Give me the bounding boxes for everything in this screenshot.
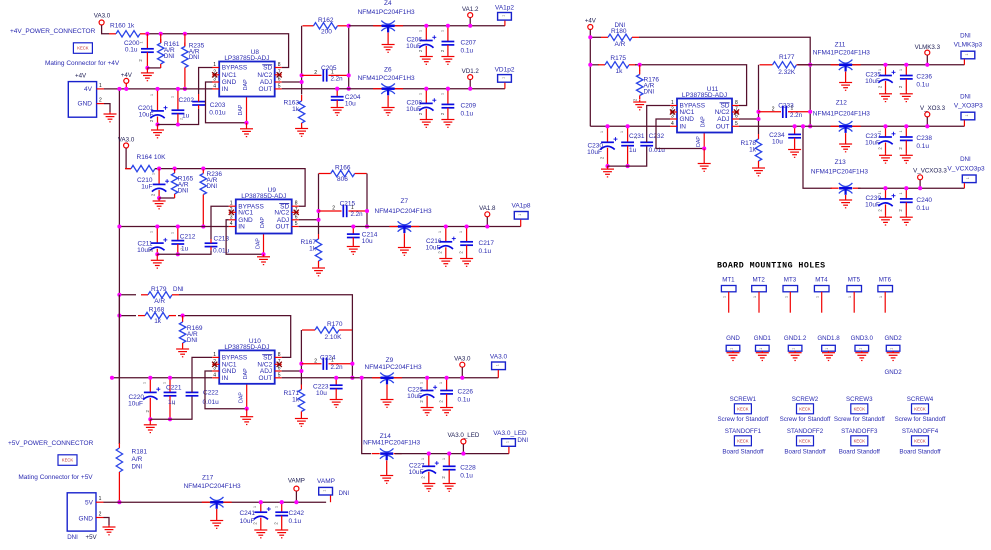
svg-text:+4V_POWER_CONNECTOR: +4V_POWER_CONNECTOR [10,28,96,35]
ground Z17 [210,519,223,528]
svg-text:OUT: OUT [258,86,272,93]
mounting hole MT1 [721,277,736,313]
ground C214 [347,245,360,254]
wire V_VCXO3.3 rail [858,187,964,189]
svg-text:VA3.0: VA3.0 [454,356,471,363]
ground Z7 [398,246,411,255]
svg-text:VA1.2: VA1.2 [462,6,479,13]
svg-text:2.10K: 2.10K [325,334,343,341]
svg-text:2: 2 [99,512,102,518]
wire cap common bus U11 [608,146,647,166]
svg-text:Screw for Standoff: Screw for Standoff [895,416,946,423]
svg-text:NFM41PC204F1H3: NFM41PC204F1H3 [358,9,415,16]
svg-text:1: 1 [791,106,794,112]
svg-text:2.2n: 2.2n [790,112,803,119]
capacitor C220 10uF [143,378,160,420]
ground C230 [601,166,614,177]
svg-text:MT2: MT2 [753,277,766,284]
svg-text:V_XO3P3: V_XO3P3 [954,103,983,110]
svg-text:DAP: DAP [239,392,245,403]
svg-text:SCREW4: SCREW4 [907,396,934,403]
svg-text:Z9: Z9 [386,357,394,364]
ground DAP U10 [240,409,253,425]
KECK footprint box 5V [58,455,77,466]
resistor R162 200 [303,23,349,29]
svg-text:5: 5 [278,83,281,89]
svg-text:5: 5 [735,121,738,127]
svg-text:1u: 1u [629,147,637,154]
wire VA3.0_LED rail [395,453,509,455]
capacitor C204 10u [331,89,344,106]
DAP pad U10 [246,384,248,409]
ground C228 [443,482,456,492]
svg-text:5: 5 [295,221,298,227]
svg-text:VAMP: VAMP [317,478,335,485]
capacitor C202 1u [172,89,185,125]
standoff STANDOFF1 [725,428,762,435]
ground C238 [900,153,913,163]
resistor R180 A/R DNI [590,36,601,38]
wire ADJ node vertical x318.5 [299,219,319,221]
svg-text:0.1u: 0.1u [479,248,492,255]
svg-text:1: 1 [858,348,862,350]
svg-text:2: 2 [180,118,184,120]
svg-text:10uF: 10uF [407,393,422,400]
standoff STANDOFF3 [841,428,878,435]
svg-text:IN: IN [680,124,687,131]
svg-text:0.1u: 0.1u [460,472,473,479]
ground C204 [331,106,344,115]
svg-text:6: 6 [295,214,298,220]
svg-text:R177: R177 [779,54,795,61]
svg-text:10uF: 10uF [139,112,154,119]
svg-text:KECK: KECK [854,438,866,443]
wire R180 to OUT vertical [639,37,810,65]
wire ADJ node vertical x301.4 [282,370,302,372]
svg-text:1: 1 [518,214,522,216]
capacitor C200 0.1u [141,34,154,68]
svg-text:DNI: DNI [207,183,218,190]
ground Z9 [381,398,394,407]
svg-text:MT1: MT1 [722,277,735,284]
mounting hole MT3 [783,277,798,313]
wire SD rail U11 [635,65,747,106]
svg-text:GND3.0: GND3.0 [851,335,874,342]
ground C226 [440,406,453,416]
svg-text:1: 1 [816,296,820,298]
svg-text:Screw for Standoff: Screw for Standoff [780,416,831,423]
svg-text:6: 6 [278,366,281,372]
svg-text:VA3.0: VA3.0 [94,13,111,20]
ground DAP U11 [698,149,711,172]
svg-text:8: 8 [735,100,738,106]
svg-text:DNI: DNI [960,93,971,100]
connector J +5V [67,493,96,531]
wire VA3.0 rail (OUT) [282,377,499,379]
mounting hole MT5 [847,277,862,313]
svg-text:KECK: KECK [914,438,926,443]
svg-text:Screw for Standoff: Screw for Standoff [718,416,769,423]
svg-text:C217: C217 [479,240,495,247]
svg-text:10uF: 10uF [865,78,880,85]
ground C242 [275,528,288,538]
svg-text:1: 1 [150,94,154,96]
wire VD1.2 rail (OUT) [282,88,505,90]
svg-text:10uF: 10uF [865,140,880,147]
svg-text:KECK: KECK [799,438,811,443]
svg-text:GND1.2: GND1.2 [784,335,807,342]
svg-text:2.2n: 2.2n [331,364,344,371]
ground symbol GND2 [887,351,900,360]
svg-text:A/R: A/R [154,298,165,305]
standoff STANDOFF2 [787,428,824,435]
svg-text:2: 2 [99,98,102,104]
ferrite bead Z4 NFM41PC204F1H3 [373,21,403,43]
svg-text:3: 3 [230,214,233,220]
ground Z6 [382,106,395,115]
ground C241 [254,528,267,538]
svg-text:VLMK3p3: VLMK3p3 [954,42,983,49]
svg-text:C205: C205 [321,65,337,72]
capacitor C223 10u [330,378,343,398]
svg-text:KECK: KECK [799,406,811,411]
ground DAP U9 [257,254,270,264]
svg-text:GND1: GND1 [754,335,772,342]
wire VA1.8 rail (OUT) [299,226,521,228]
svg-text:1: 1 [351,205,354,211]
junction dots SD rail [145,32,149,36]
svg-text:1: 1 [671,100,674,106]
svg-text:MT6: MT6 [879,277,892,284]
svg-text:BYPASS: BYPASS [222,65,248,72]
svg-text:2.2n: 2.2n [331,76,344,83]
svg-text:1: 1 [966,177,970,179]
svg-text:NFM41PC204F1H3: NFM41PC204F1H3 [358,75,415,82]
svg-text:Board Standoff: Board Standoff [899,449,940,456]
svg-text:IN: IN [222,375,229,382]
screw SCREW1 [730,396,757,403]
ground C207 [441,55,454,65]
svg-text:Z6: Z6 [384,67,392,74]
ground DAP U8 [240,123,253,137]
svg-text:DNI: DNI [960,156,971,163]
ground C210 [153,198,166,209]
svg-text:R160 1k: R160 1k [110,23,135,30]
svg-text:10uF: 10uF [426,244,441,251]
ferrite bead Z7 NFM41PC204F1H3 [389,221,419,246]
KECK box SCREW1 [734,404,751,414]
ferrite bead Z11 NFM41PC204F1H3 [831,60,861,81]
svg-text:VD1.2: VD1.2 [462,68,480,75]
svg-text:ADJ: ADJ [717,116,729,123]
svg-text:GND: GND [680,116,695,123]
svg-text:+5V: +5V [86,534,98,541]
svg-text:1: 1 [759,348,763,350]
ground C201 [151,125,164,138]
svg-text:VA1p2: VA1p2 [495,5,514,12]
ground symbol GND3.0 [855,351,868,360]
wire SD rail U9 [155,169,305,207]
svg-text:1uF: 1uF [141,184,152,191]
svg-text:V_VCXO3.3: V_VCXO3.3 [913,168,947,175]
capacitor C228 0.1u [443,454,456,482]
svg-text:1: 1 [753,296,757,298]
svg-text:NFM41PC204F1H3: NFM41PC204F1H3 [811,169,868,176]
svg-text:4: 4 [213,372,216,378]
svg-text:DNI: DNI [517,437,528,444]
svg-text:A/R: A/R [615,41,626,48]
svg-text:SCREW1: SCREW1 [730,396,757,403]
svg-text:0.1u: 0.1u [461,110,474,117]
capacitor C207 0.1u [442,26,455,55]
wire GND pin3 to DAP [226,220,263,255]
ground R163 [295,127,308,137]
capacitor C233 2.2n [759,106,811,118]
svg-text:R181: R181 [132,449,148,456]
KECK box STANDOFF3 [851,436,868,446]
ground symbol GND1 [756,351,769,360]
svg-text:3: 3 [671,114,674,120]
resistor R167 1k [315,234,321,266]
svg-text:6: 6 [735,114,738,120]
svg-text:MT3: MT3 [784,277,797,284]
capacitor C216 10uF [439,227,456,257]
svg-text:2: 2 [314,358,317,364]
wire OUT rail to Z12 [739,125,964,127]
svg-text:1: 1 [441,93,445,95]
+4V bus down the left side [118,89,120,444]
svg-text:OUT: OUT [258,375,272,382]
svg-text:0.01u: 0.01u [213,248,230,255]
svg-text:NFM41PC204F1H3: NFM41PC204F1H3 [813,111,870,118]
svg-text:MT4: MT4 [815,277,828,284]
svg-text:VA3.0_LED: VA3.0_LED [447,432,479,439]
svg-text:1: 1 [723,296,727,298]
svg-text:10uF: 10uF [587,149,602,156]
wire GND pin3 to DAP [656,119,704,149]
svg-text:N/C2: N/C2 [715,109,730,116]
ground tag GND [726,335,740,351]
svg-text:VAMP: VAMP [288,478,305,485]
svg-text:0.1u: 0.1u [461,48,474,55]
svg-text:5V: 5V [85,500,94,507]
svg-text:1k: 1k [616,68,624,75]
svg-text:C241: C241 [239,510,255,517]
svg-text:DAP: DAP [696,136,702,147]
ferrite bead Z6 NFM41PC204F1H3 [373,84,403,107]
wire OUT node vertical x810.2 [809,65,811,127]
svg-text:1: 1 [139,42,143,44]
svg-text:1: 1 [879,296,883,298]
ground tag GND3.0 [851,335,874,351]
capacitor C225 10uF [420,378,437,406]
mounting hole MT2 [752,277,767,313]
svg-text:VD1p2: VD1p2 [495,67,515,74]
wire SD rail U8 [147,34,289,68]
ground symbol GND [727,351,740,360]
capacitor C201 10uF [150,89,167,125]
svg-text:1k: 1k [154,318,162,325]
svg-text:R179: R179 [151,286,167,293]
svg-text:1: 1 [99,496,102,502]
resistor R178 1k [755,134,761,166]
svg-text:LP38785D-ADJ: LP38785D-ADJ [241,193,286,200]
svg-text:R164 10K: R164 10K [137,154,167,161]
capacitor C213 0.01u (bypass) [205,239,218,250]
capacitor C226 0.1u [440,378,453,406]
svg-text:1k: 1k [292,106,300,113]
svg-text:DNI: DNI [178,187,189,194]
ground C216 [439,257,452,267]
capacitor C224 2.2n [301,358,352,370]
wire GND pin to ground 5V [104,518,110,526]
capacitor C241 10uF [254,502,271,528]
resistor R163 1k [298,95,304,129]
svg-text:1: 1 [419,93,423,95]
svg-text:DAP: DAP [701,116,707,127]
wire U11 IN rail [590,125,670,127]
svg-text:1: 1 [420,382,424,384]
ground C225 [421,406,434,416]
svg-text:0.1u: 0.1u [125,46,138,53]
op-amp U11 LP38785D-ADJ regulator [670,86,739,133]
wire U10 IN rail [112,377,212,379]
ground R171 [295,417,308,427]
svg-text:Z13: Z13 [835,159,847,166]
pin 1 of +5V connector [96,501,104,503]
svg-text:GND: GND [78,101,93,108]
screw SCREW3 [846,396,873,403]
svg-text:KECK: KECK [737,438,749,443]
svg-text:2: 2 [314,70,317,76]
capacitor C210 1uF [152,169,169,198]
capacitor C203 0.01u (bypass) [192,94,205,109]
capacitor C214 10u [347,227,360,246]
resistor R161 A/R DNI [158,34,164,68]
svg-text:+5V_POWER_CONNECTOR: +5V_POWER_CONNECTOR [8,440,94,447]
svg-text:DNI: DNI [189,54,200,61]
svg-text:1: 1 [143,382,147,384]
DAP pad U9 [263,234,265,255]
svg-text:NFM41PC204F1H3: NFM41PC204F1H3 [363,440,420,447]
svg-text:4: 4 [230,221,233,227]
pin 2 of +4V connector [97,103,104,105]
svg-text:1: 1 [459,231,463,233]
svg-text:BOARD MOUNTING HOLES: BOARD MOUNTING HOLES [717,262,826,271]
svg-text:+4V: +4V [75,73,87,80]
svg-text:GND: GND [726,335,740,342]
resistor R168 1k [119,315,136,317]
svg-text:1: 1 [253,506,257,508]
svg-text:VA3.0: VA3.0 [490,354,508,361]
ground C239 [879,215,892,225]
svg-text:GND2: GND2 [884,335,902,342]
ferrite bead Z14 NFM41PC204F1H3 [372,448,402,474]
svg-text:R175: R175 [610,55,626,62]
resistor R166 806 [319,170,367,176]
svg-text:DAP: DAP [238,104,244,115]
svg-text:0.1u: 0.1u [916,82,929,89]
svg-text:LP38785D-ADJ: LP38785D-ADJ [224,55,269,62]
wire VA1.2 rail [349,25,505,27]
svg-text:1: 1 [170,232,174,234]
svg-text:C228: C228 [460,464,476,471]
svg-text:1: 1 [274,506,278,508]
svg-text:STANDOFF4: STANDOFF4 [902,428,939,435]
svg-text:IN: IN [222,86,229,93]
svg-text:DAP: DAP [256,238,262,249]
svg-text:2: 2 [634,137,638,139]
svg-text:806: 806 [337,176,348,183]
svg-text:DNI: DNI [960,33,971,40]
svg-text:4V: 4V [84,86,93,93]
svg-text:DAP: DAP [243,368,249,379]
svg-text:1: 1 [784,296,788,298]
wire R179 to OUT vertical [179,295,352,330]
svg-text:STANDOFF3: STANDOFF3 [841,428,878,435]
svg-text:1k: 1k [749,147,757,154]
svg-text:GND: GND [79,516,94,523]
svg-text:Board Standoff: Board Standoff [784,449,825,456]
svg-text:+4V: +4V [585,18,597,25]
node C201 bottom [155,122,159,126]
ground R169 [176,347,189,357]
ground C200 [141,68,154,81]
svg-text:GND1.8: GND1.8 [817,335,840,342]
svg-text:2: 2 [180,248,184,250]
svg-text:1: 1 [439,382,443,384]
svg-text:200: 200 [321,29,332,36]
capacitor C208 10uF [419,89,436,118]
svg-text:1: 1 [600,131,604,133]
ground C209 [441,118,454,128]
capacitor C232 0.01u (bypass) [640,142,653,145]
svg-text:8: 8 [278,62,281,68]
svg-text:C242: C242 [289,510,305,517]
wire +4V input rail [104,88,213,90]
svg-text:VA1.8: VA1.8 [479,205,496,212]
ground R178 [752,166,765,176]
capacitor C211 10uF [150,227,167,255]
svg-text:1: 1 [878,69,882,71]
wire Z13 feed vertical [803,126,832,188]
ground symbol GND1.8 [822,351,835,360]
ground C237 [879,153,892,163]
svg-text:LP38785D-ADJ: LP38785D-ADJ [224,344,269,351]
svg-text:1: 1 [496,364,500,366]
pin 1 of +4V connector [97,88,104,90]
svg-text:LP38785D-ADJ: LP38785D-ADJ [682,92,727,99]
resistor R175 1k [590,64,599,66]
ground C236 [900,92,913,102]
svg-text:C226: C226 [458,389,474,396]
svg-text:10u: 10u [345,101,356,108]
svg-text:4: 4 [671,121,674,127]
svg-text:VA1p8: VA1p8 [511,203,530,210]
ground C240 [900,215,913,225]
capacitor C206 10uF [419,26,436,55]
ground connector +5V [103,525,116,535]
wire ADJ node vertical x758.5 [739,118,759,120]
svg-text:Screw for Standoff: Screw for Standoff [834,416,885,423]
svg-text:2.32K: 2.32K [778,69,796,76]
svg-text:1: 1 [965,114,969,116]
svg-text:KECK: KECK [62,458,74,463]
ferrite bead Z17 NFM41PC204F1H3 [202,497,232,519]
wire BYPASS pin1 to C232 [647,106,670,143]
wire GND pin3 to DAP [206,82,247,123]
svg-text:DNI: DNI [187,337,198,344]
